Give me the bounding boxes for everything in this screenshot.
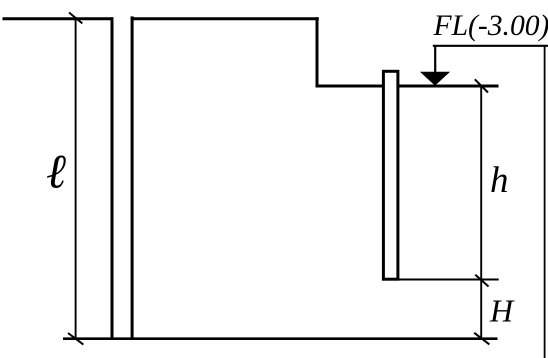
excavated formation level line: [316, 85, 499, 88]
tick at formation level: [475, 79, 488, 92]
pile toe extension line: [397, 279, 499, 281]
tick at bottom right: [474, 333, 489, 345]
ground surface line upper-left: [3, 17, 114, 20]
left dimension line: [75, 19, 77, 339]
FL leader horizontal line: [433, 45, 548, 47]
right sheet pile rectangle: [383, 71, 398, 279]
svg-text:h: h: [490, 160, 509, 201]
left sheet-pile wall left face: [111, 17, 114, 340]
level symbol triangle: [420, 72, 450, 86]
right border line: [544, 46, 546, 358]
svg-text:H: H: [489, 293, 515, 329]
excavation step vertical: [316, 17, 319, 86]
left sheet-pile wall right face: [131, 16, 134, 340]
right dimension line: [480, 86, 482, 339]
tick at pile toe: [475, 275, 488, 287]
FL leader vertical line: [434, 46, 436, 73]
svg-text:FL(-3.00): FL(-3.00): [433, 10, 548, 42]
bottom boundary line: [63, 337, 498, 340]
tick at bottom left: [68, 333, 83, 345]
svg-text:ℓ: ℓ: [46, 145, 66, 198]
tick at top left: [69, 13, 82, 24]
ground surface line upper-middle: [131, 17, 319, 20]
